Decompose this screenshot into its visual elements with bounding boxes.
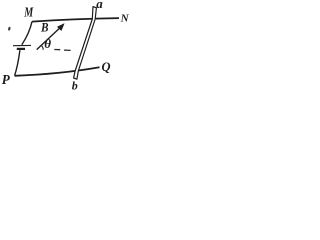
rod ab (white filled outline, crosses both rails) (74, 7, 97, 80)
wire bottom rail P to Q (15, 67, 100, 76)
ink speck (8, 26, 11, 30)
battery negative plate (short thick) (17, 48, 25, 50)
field arrow B shaft (37, 27, 62, 50)
battery positive plate (long) (13, 44, 31, 46)
wire top rail M to N (32, 18, 119, 22)
svg-text:N: N (120, 12, 130, 24)
angle arc theta (41, 46, 43, 50)
svg-text:b: b (72, 79, 78, 92)
wire left edge upper (M corner to battery) (22, 22, 32, 45)
svg-text:P: P (2, 73, 10, 88)
svg-text:θ: θ (44, 36, 51, 51)
dashed reference line (54, 49, 70, 52)
arrowhead of B (57, 24, 64, 31)
svg-text:B: B (40, 19, 49, 34)
svg-text:M: M (23, 6, 33, 21)
svg-text:Q: Q (102, 59, 112, 74)
svg-text:a: a (96, 0, 103, 11)
wire left edge lower (battery to P corner) (15, 50, 20, 75)
